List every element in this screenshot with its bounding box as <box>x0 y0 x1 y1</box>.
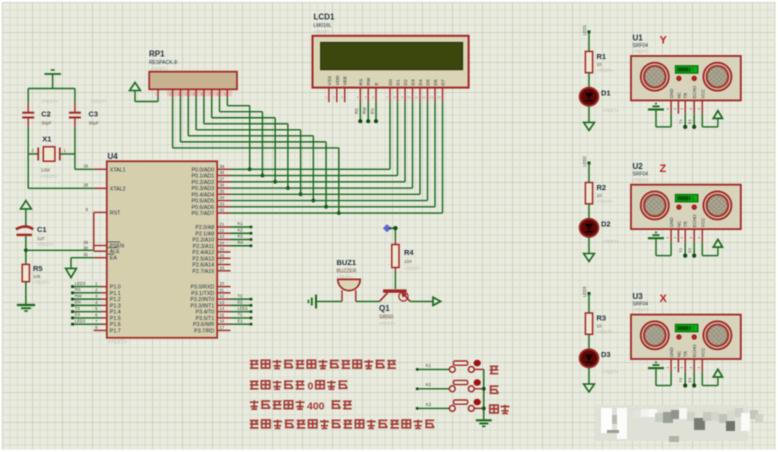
svg-text:Q1: Q1 <box>379 304 390 313</box>
svg-text:2: 2 <box>333 96 335 100</box>
svg-text:<TEXT>: <TEXT> <box>602 239 619 244</box>
svg-text:22: 22 <box>220 228 225 233</box>
svg-text:LED2: LED2 <box>582 155 587 166</box>
svg-text:31: 31 <box>83 252 88 257</box>
svg-text:RST: RST <box>110 210 121 216</box>
svg-text:<TEXT>: <TEXT> <box>151 67 168 72</box>
svg-text:P2.3/A11: P2.3/A11 <box>193 244 214 250</box>
svg-text:RW: RW <box>362 107 367 114</box>
svg-text:GND: GND <box>669 217 674 227</box>
svg-text:C1: C1 <box>37 225 47 234</box>
svg-text:P1.6: P1.6 <box>110 322 121 328</box>
svg-text:30: 30 <box>83 246 88 251</box>
svg-text:R5: R5 <box>33 264 43 273</box>
svg-text:32: 32 <box>220 208 225 213</box>
svg-text:30pF: 30pF <box>41 120 52 125</box>
svg-text:<TEXT>: <TEXT> <box>379 321 396 326</box>
svg-text:K3: K3 <box>426 402 432 407</box>
svg-text:34: 34 <box>220 195 225 200</box>
svg-text:E1: E1 <box>687 118 692 124</box>
svg-text:400: 400 <box>307 401 325 413</box>
svg-text:12M: 12M <box>41 168 50 173</box>
svg-text:<TEXT>: <TEXT> <box>633 308 650 313</box>
svg-text:<TEXT>: <TEXT> <box>314 30 331 35</box>
svg-text:D2: D2 <box>403 79 409 85</box>
svg-text:100: 100 <box>404 259 412 264</box>
svg-text:37: 37 <box>220 176 225 181</box>
svg-text:P0.2/AD2: P0.2/AD2 <box>192 180 215 186</box>
svg-text:RW: RW <box>366 77 372 85</box>
svg-text:10: 10 <box>220 281 225 286</box>
svg-text:K2: K2 <box>238 227 244 232</box>
svg-text:13: 13 <box>220 300 225 305</box>
svg-text:10: 10 <box>407 96 411 100</box>
svg-text:NC: NC <box>676 92 681 98</box>
svg-text:11: 11 <box>415 96 419 100</box>
svg-text:RS: RS <box>75 287 81 292</box>
svg-text:P2.4/A12: P2.4/A12 <box>192 250 214 256</box>
svg-text:33: 33 <box>220 201 225 206</box>
svg-text:LED2: LED2 <box>75 318 86 323</box>
svg-text:P2.2/A10: P2.2/A10 <box>192 238 214 244</box>
svg-text:P3.1/TXD: P3.1/TXD <box>191 291 214 297</box>
svg-text:RW: RW <box>75 293 82 298</box>
svg-text:E3: E3 <box>687 377 692 383</box>
svg-text:P0.5/AD5: P0.5/AD5 <box>192 199 215 205</box>
svg-text:Z: Z <box>660 163 667 175</box>
svg-text:P3.5/T1: P3.5/T1 <box>196 316 215 322</box>
svg-text:<TEXT>: <TEXT> <box>597 68 614 73</box>
svg-text:7: 7 <box>209 93 211 97</box>
svg-text:ECHO: ECHO <box>692 344 697 357</box>
svg-text:NC: NC <box>676 351 681 357</box>
svg-text:K1: K1 <box>238 221 244 226</box>
svg-text:<TEXT>: <TEXT> <box>597 330 614 335</box>
svg-text:EN: EN <box>75 300 81 305</box>
svg-text:BUZZER: BUZZER <box>337 268 357 274</box>
svg-text:Y: Y <box>660 35 668 47</box>
svg-text:D3: D3 <box>411 79 417 85</box>
svg-text:6: 6 <box>201 93 203 97</box>
svg-text:27: 27 <box>220 259 225 264</box>
svg-text:XTAL2: XTAL2 <box>110 186 126 192</box>
svg-text:18: 18 <box>83 183 88 188</box>
svg-text:GND: GND <box>669 347 674 357</box>
svg-text:C2: C2 <box>41 110 51 119</box>
svg-text:25: 25 <box>220 247 225 252</box>
svg-text:3: 3 <box>341 96 343 100</box>
svg-text:K3: K3 <box>238 234 244 239</box>
svg-text:P1.2: P1.2 <box>110 297 121 303</box>
svg-text:14: 14 <box>220 306 225 311</box>
svg-text:C3: C3 <box>89 110 99 119</box>
svg-text:T1: T1 <box>678 119 683 124</box>
svg-text:35: 35 <box>220 189 225 194</box>
svg-text:38: 38 <box>220 170 225 175</box>
svg-text:1uF: 1uF <box>37 236 45 241</box>
svg-text:13: 13 <box>429 96 433 100</box>
svg-text:RS: RS <box>358 79 364 86</box>
svg-text:3: 3 <box>177 93 179 97</box>
svg-text:<TEXT>: <TEXT> <box>91 99 108 104</box>
svg-text:P0.1/AD1: P0.1/AD1 <box>192 174 215 180</box>
svg-text:10: 10 <box>597 62 603 67</box>
svg-text:LED3: LED3 <box>582 286 587 297</box>
svg-text:T3: T3 <box>75 306 81 311</box>
svg-text:P2.0/A8: P2.0/A8 <box>195 225 214 231</box>
svg-text:D5: D5 <box>426 79 432 85</box>
svg-text:T2: T2 <box>238 293 244 298</box>
svg-text:RS: RS <box>354 108 359 114</box>
svg-text:E: E <box>374 82 380 85</box>
svg-text:<TEXT>: <TEXT> <box>41 174 58 179</box>
svg-text:17: 17 <box>220 325 225 330</box>
svg-text:LM016L: LM016L <box>314 23 332 29</box>
svg-text:9: 9 <box>401 96 403 100</box>
svg-text:D1: D1 <box>601 88 611 97</box>
svg-text:<TEXT>: <TEXT> <box>37 242 54 247</box>
svg-text:1: 1 <box>155 93 157 97</box>
svg-text:2: 2 <box>170 93 172 97</box>
svg-text:T2: T2 <box>678 247 683 252</box>
svg-text:EN: EN <box>370 108 375 114</box>
svg-text:4: 4 <box>185 93 187 97</box>
svg-text:<TEXT>: <TEXT> <box>404 266 421 271</box>
svg-text:P0.3/AD3: P0.3/AD3 <box>192 186 215 192</box>
svg-text:14: 14 <box>437 96 441 100</box>
svg-text:D4: D4 <box>418 79 424 85</box>
svg-text:9: 9 <box>224 93 226 97</box>
svg-text:P3.0/RXD: P3.0/RXD <box>191 285 215 291</box>
svg-text:VCC: VCC <box>700 89 705 98</box>
svg-text:P3.3/INT1: P3.3/INT1 <box>190 303 214 309</box>
svg-text:P1.5: P1.5 <box>110 316 121 322</box>
svg-text:26: 26 <box>220 253 225 258</box>
svg-text:LED1: LED1 <box>238 306 249 311</box>
svg-text:D3: D3 <box>601 350 611 359</box>
svg-text:<TEXT>: <TEXT> <box>633 178 650 183</box>
svg-text:5: 5 <box>193 93 195 97</box>
svg-text:VEE: VEE <box>343 76 349 86</box>
svg-text:U2: U2 <box>633 162 644 171</box>
svg-text:D1: D1 <box>396 79 402 85</box>
svg-text:6: 6 <box>372 96 374 100</box>
svg-text:4: 4 <box>357 96 359 100</box>
svg-text:R1: R1 <box>597 52 607 61</box>
svg-text:P3.7/RD: P3.7/RD <box>194 328 214 334</box>
svg-text:15: 15 <box>220 312 225 317</box>
svg-text:11: 11 <box>220 287 225 292</box>
svg-text:28: 28 <box>220 265 225 270</box>
svg-text:8: 8 <box>394 96 396 100</box>
svg-text:12: 12 <box>220 294 225 299</box>
svg-text:16: 16 <box>220 319 225 324</box>
svg-text:RESPACK-8: RESPACK-8 <box>149 60 177 66</box>
svg-text:<TEXT>: <TEXT> <box>633 49 650 54</box>
svg-text:5: 5 <box>365 96 367 100</box>
svg-text:P0.6/AD6: P0.6/AD6 <box>192 205 215 211</box>
svg-text:EA: EA <box>110 256 118 262</box>
svg-text:21: 21 <box>220 222 225 227</box>
svg-text:23: 23 <box>220 234 225 239</box>
svg-text:P2.5/A13: P2.5/A13 <box>192 256 214 262</box>
svg-text:P3.4/T0: P3.4/T0 <box>196 310 215 316</box>
svg-text:P1.0: P1.0 <box>110 285 121 291</box>
svg-text:8: 8 <box>217 93 219 97</box>
svg-text:VSS: VSS <box>327 76 333 86</box>
svg-text:R4: R4 <box>404 248 414 257</box>
svg-text:10: 10 <box>597 324 603 329</box>
svg-text:19: 19 <box>83 164 88 169</box>
svg-text:R4: R4 <box>238 240 244 245</box>
svg-text:10k: 10k <box>33 274 41 279</box>
svg-text:T3: T3 <box>678 377 683 382</box>
svg-text:VCC: VCC <box>700 218 705 227</box>
svg-text:29: 29 <box>83 240 88 245</box>
svg-text:12: 12 <box>422 96 426 100</box>
svg-text:P1.1: P1.1 <box>110 291 121 297</box>
svg-text:D6: D6 <box>433 79 439 85</box>
svg-text:E1: E1 <box>238 318 244 323</box>
svg-text:36: 36 <box>220 183 225 188</box>
svg-text:39: 39 <box>220 164 225 169</box>
svg-text:P2.1/A9: P2.1/A9 <box>195 231 214 237</box>
svg-text:7: 7 <box>386 96 388 100</box>
svg-text:U1: U1 <box>633 34 644 43</box>
svg-text:P3.2/INT0: P3.2/INT0 <box>190 297 214 303</box>
svg-text:<TEXT>: <TEXT> <box>42 99 59 104</box>
svg-text:R2: R2 <box>597 183 607 192</box>
svg-text:R3: R3 <box>597 314 607 323</box>
svg-text:<TEXT>: <TEXT> <box>602 370 619 375</box>
svg-text:X1: X1 <box>42 135 51 144</box>
svg-text:X: X <box>660 293 668 305</box>
svg-text:D0: D0 <box>388 79 394 85</box>
svg-text:XTAL1: XTAL1 <box>110 167 126 173</box>
svg-text:E2: E2 <box>238 300 244 305</box>
svg-text:P2.6/A14: P2.6/A14 <box>192 263 214 269</box>
svg-text:P3.6/WR: P3.6/WR <box>193 322 214 328</box>
svg-text:<TEXT>: <TEXT> <box>597 199 614 204</box>
svg-text:K1: K1 <box>426 363 432 368</box>
svg-text:ECHO: ECHO <box>692 85 697 98</box>
svg-text:E2: E2 <box>687 247 692 253</box>
svg-text:P0.0/AD0: P0.0/AD0 <box>192 167 215 173</box>
svg-text:U4: U4 <box>108 152 119 161</box>
svg-text:LED3: LED3 <box>75 281 86 286</box>
svg-text:P1.3: P1.3 <box>110 303 121 309</box>
svg-text:<TEXT>: <TEXT> <box>33 280 50 285</box>
svg-text:<TEXT>: <TEXT> <box>602 108 619 113</box>
svg-text:VDD: VDD <box>335 75 341 86</box>
svg-text:K2: K2 <box>426 382 432 387</box>
svg-text:D2: D2 <box>601 220 611 229</box>
svg-text:E3: E3 <box>75 312 81 317</box>
svg-text:T1: T1 <box>238 312 244 317</box>
svg-text:P1.4: P1.4 <box>110 310 121 316</box>
svg-text:BUZ1: BUZ1 <box>337 258 357 267</box>
svg-text:U3: U3 <box>633 292 644 301</box>
svg-text:24: 24 <box>220 240 225 245</box>
svg-text:1: 1 <box>325 96 327 100</box>
svg-text:LCD1: LCD1 <box>314 13 335 22</box>
svg-text:<TEXT>: <TEXT> <box>108 340 127 346</box>
svg-text:P0.7/AD7: P0.7/AD7 <box>192 211 215 217</box>
svg-text:ECHO: ECHO <box>692 214 697 227</box>
svg-text:TR: TR <box>683 221 688 227</box>
svg-text:D7: D7 <box>441 79 447 85</box>
svg-text:P0.4/AD4: P0.4/AD4 <box>192 192 215 198</box>
svg-text:RP1: RP1 <box>149 50 165 59</box>
svg-text:NC: NC <box>676 221 681 227</box>
svg-text:P1.7: P1.7 <box>110 328 121 334</box>
svg-text:VCC: VCC <box>700 348 705 357</box>
svg-text:LED1: LED1 <box>582 24 587 35</box>
svg-text:TR: TR <box>683 351 688 357</box>
svg-text:0: 0 <box>308 381 314 393</box>
svg-text:10: 10 <box>597 193 603 198</box>
svg-text:GND: GND <box>669 89 674 99</box>
svg-text:S8550: S8550 <box>379 315 394 321</box>
svg-text:TR: TR <box>683 93 688 99</box>
svg-text:30pF: 30pF <box>89 120 100 125</box>
svg-text:P2.7/A15: P2.7/A15 <box>192 269 214 275</box>
